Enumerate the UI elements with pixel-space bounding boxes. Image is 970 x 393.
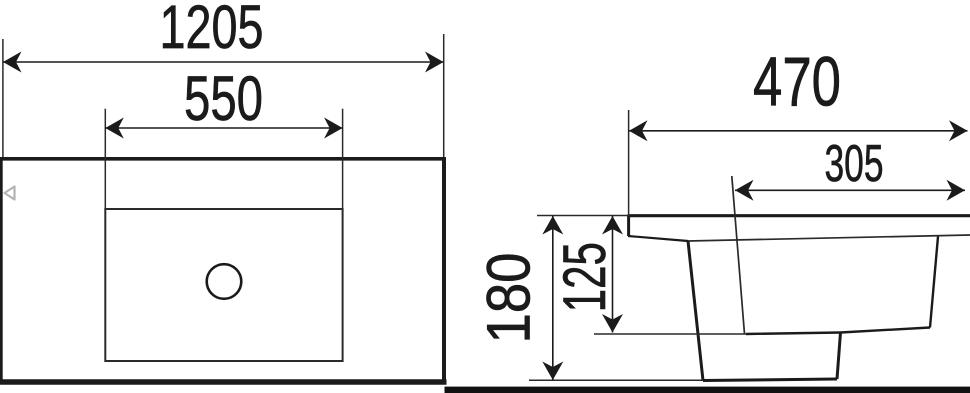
dimension 470: right arrowhead	[949, 120, 968, 141]
dimension 550: right extension line	[342, 109, 344, 209]
basin bottom (right of step)	[841, 328, 931, 333]
extension line at basin bottom level (for 125)	[594, 333, 746, 335]
svg-text:305: 305	[825, 135, 884, 193]
drain circle	[207, 264, 242, 299]
top view outer rectangle: top edge	[0, 157, 446, 161]
dimension 470: left arrowhead	[629, 120, 648, 141]
dimension 305: left arrowhead	[735, 180, 754, 201]
trap bottom edge	[703, 379, 837, 381]
dimension 125: top arrowhead	[602, 216, 623, 235]
dimension 550: left arrowhead	[105, 118, 124, 139]
dimension 1205: left extension line	[2, 39, 4, 157]
basin right wall	[930, 237, 938, 328]
bottom border band (right portion)	[445, 387, 970, 393]
dimension 125: dimension line	[612, 216, 614, 333]
trap right wall	[837, 333, 841, 380]
side view slab top edge	[628, 214, 970, 217]
dimension 305: dimension line	[735, 189, 965, 191]
dimension 1205: right arrowhead	[425, 52, 444, 73]
side view slab underside (left sloped part)	[628, 236, 688, 241]
dimension 1205: right extension line	[443, 34, 445, 157]
basin inner rectangle	[105, 209, 342, 361]
dimension 1205: dimension line	[3, 61, 444, 63]
dimension 125: bottom arrowhead	[602, 314, 623, 333]
dimension 180: bottom arrowhead	[542, 362, 563, 381]
dimension 180: top arrowhead	[542, 216, 563, 235]
dimension 180: dimension line	[552, 216, 554, 380]
side view slab left edge	[627, 215, 630, 237]
svg-text:470: 470	[753, 43, 841, 121]
dimension 550: dimension line	[105, 127, 342, 129]
dimension 1205: left arrowhead	[3, 52, 22, 73]
top view outer rectangle: left edge	[0, 157, 3, 384]
extension line at trap bottom level (for 180)	[529, 379, 703, 381]
basin bottom (left of step)	[746, 333, 841, 335]
basin outer left wall	[688, 241, 703, 381]
dimension 550: right arrowhead	[324, 118, 343, 139]
dimension 550: left extension line	[104, 109, 106, 209]
svg-text:125: 125	[551, 242, 618, 312]
svg-text:550: 550	[184, 64, 263, 134]
dimension 470: left extension line	[628, 110, 630, 215]
dimension 305: right arrowhead	[947, 180, 966, 201]
svg-text:1205: 1205	[160, 0, 264, 61]
side view slab underside (long thin part to right edge)	[688, 235, 970, 241]
svg-text:180: 180	[475, 253, 543, 344]
top view outer rectangle: bottom edge (thick)	[0, 379, 447, 384]
top view outer rectangle: right edge	[442, 157, 446, 384]
basin inner back wall / 305 extension line	[732, 176, 745, 334]
dimension 470: dimension line	[629, 130, 968, 132]
extension line at slab top level (for 180/125)	[537, 215, 630, 217]
carousel previous-arrow glyph (light gray triangle)	[5, 187, 15, 200]
